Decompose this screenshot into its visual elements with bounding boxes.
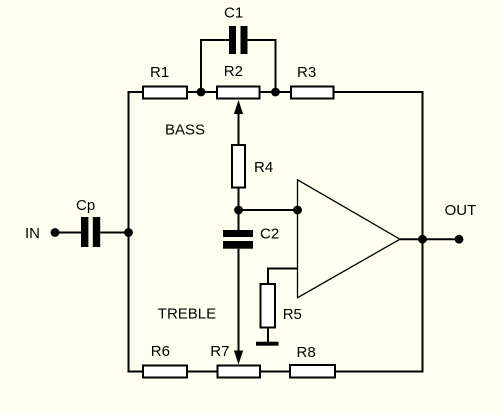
ground symbol [256, 342, 279, 346]
wire node C to op-amp input node D [239, 209, 298, 211]
input junction dot on left rail [124, 228, 133, 237]
resistor R8 [290, 365, 335, 378]
wire node C to C2 [238, 210, 240, 230]
resistor R3 [291, 87, 334, 99]
capacitor C1 plates [229, 26, 236, 54]
svg-text:R2: R2 [224, 63, 243, 80]
wire R8 to right rail [335, 371, 423, 373]
wire op-amp output to OUT terminal [400, 238, 459, 240]
wire op-amp noninverting input to R5 [268, 269, 298, 285]
wire R2 wiper to R4 [238, 113, 240, 145]
resistor R5 [261, 284, 276, 328]
wire C1 left branch [201, 40, 229, 92]
svg-text:R4: R4 [254, 159, 273, 176]
capacitor C2 plates [223, 230, 253, 237]
wire R4 to node C [238, 188, 240, 211]
svg-text:BASS: BASS [165, 121, 205, 138]
output junction dot on right rail [418, 235, 427, 244]
wire R5 to ground [267, 328, 269, 343]
svg-text:IN: IN [25, 225, 40, 242]
wire R7 to R8 [260, 371, 290, 373]
wire IN terminal to Cp [55, 232, 81, 234]
wire C2 to R7 wiper arrow [238, 249, 240, 352]
wire R3 to right rail [334, 91, 423, 93]
svg-text:R7: R7 [210, 343, 229, 360]
svg-text:R3: R3 [297, 64, 316, 81]
resistor R2 (potentiometer) [217, 87, 260, 99]
svg-text:C1: C1 [224, 4, 243, 21]
IN terminal dot [51, 228, 60, 237]
op-amp U1 [298, 180, 401, 298]
resistor R7 (potentiometer) [218, 366, 261, 378]
node A junction dot [197, 88, 206, 97]
svg-text:C2: C2 [260, 226, 279, 243]
wire bottom rail left (rail to R6) [129, 371, 144, 373]
OUT terminal dot [455, 235, 464, 244]
wire right rail vertical [422, 91, 424, 373]
resistor R4 [232, 145, 245, 188]
node D junction dot (op-amp inverting input) [293, 206, 302, 215]
svg-text:R8: R8 [297, 344, 316, 361]
R7 wiper arrowhead [234, 351, 243, 365]
wire C1 right branch [248, 40, 276, 92]
svg-text:R5: R5 [283, 306, 302, 323]
node B junction dot [271, 88, 280, 97]
wire R6 to R7 [187, 371, 219, 373]
wire left rail vertical [128, 91, 130, 373]
svg-text:OUT: OUT [445, 202, 477, 219]
node C junction dot [234, 206, 243, 215]
wire R1 to node A [187, 91, 217, 93]
svg-text:TREBLE: TREBLE [158, 306, 216, 323]
wire top-left segment (left rail to R1) [129, 91, 144, 93]
wire Cp to left rail junction [100, 232, 128, 234]
resistor R1 [143, 87, 187, 99]
wire R2 to node B [260, 91, 292, 93]
capacitor Cp plates [81, 217, 88, 247]
svg-text:R6: R6 [151, 343, 170, 360]
svg-text:Cp: Cp [76, 197, 95, 214]
svg-text:R1: R1 [150, 64, 169, 81]
R2 wiper arrowhead [234, 100, 243, 114]
resistor R6 [143, 366, 187, 378]
